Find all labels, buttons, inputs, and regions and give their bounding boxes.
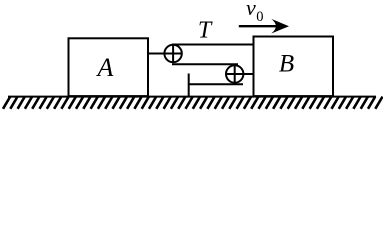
block B — [254, 37, 334, 97]
svg-text:0: 0 — [256, 9, 263, 25]
pulley P2 (lower, attached to block B) — [226, 65, 254, 82]
svg-text:B: B — [279, 51, 294, 78]
ground hatching — [3, 97, 383, 109]
svg-text:v: v — [246, 0, 256, 20]
anchor post — [188, 74, 190, 97]
block A — [69, 38, 149, 96]
wire middle strand (upper pulley bottom to lower pulley top) — [172, 63, 238, 65]
svg-text:A: A — [96, 53, 114, 82]
velocity arrow v0 — [239, 25, 278, 27]
pulley P1 (upper, attached to block A) — [148, 45, 182, 62]
svg-text:T: T — [198, 18, 213, 44]
wire rope T (top strand from upper pulley to block B) — [172, 44, 254, 46]
ground — [8, 96, 376, 98]
wire bottom strand (lower pulley bottom to anchor post) — [189, 83, 243, 85]
